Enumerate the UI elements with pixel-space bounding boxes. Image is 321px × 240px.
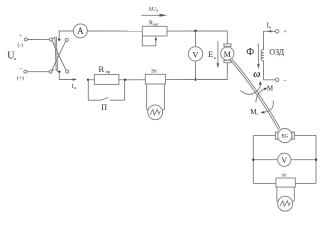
node Rp right junction <box>124 79 126 81</box>
wire crossover diagonal TL-BR <box>52 41 66 71</box>
wire <box>195 31 197 47</box>
svg-text:Ф: Ф <box>246 47 254 58</box>
svg-text:П: П <box>101 103 107 112</box>
node field minus terminal <box>276 78 279 81</box>
switch P bypass contact <box>88 80 124 112</box>
svg-text:+: + <box>19 33 22 39</box>
node right V2 junction <box>315 159 317 161</box>
arrow If <box>267 21 272 32</box>
field winding branch: wire <box>264 31 276 50</box>
label M torque with rotation arrow <box>256 84 274 102</box>
svg-text:(+): (+) <box>17 75 24 82</box>
resistor Rp <box>94 64 119 84</box>
svg-text:Sh: Sh <box>151 69 157 74</box>
resistor Rreg rheostat <box>142 21 167 36</box>
svg-text:R: R <box>149 21 153 27</box>
node top V junction <box>194 30 196 32</box>
arrow Ia with label <box>72 78 77 90</box>
wire <box>195 61 197 80</box>
svg-text:ΔU: ΔU <box>148 6 156 12</box>
svg-text:V: V <box>192 49 199 59</box>
wire <box>253 136 275 184</box>
wire <box>196 63 228 80</box>
svg-text:рег: рег <box>154 22 159 26</box>
shunt Sh2 with millivoltmeter <box>276 172 295 211</box>
node supply minus terminal <box>24 70 27 73</box>
label Ea with arrow <box>208 41 219 68</box>
svg-text:M: M <box>224 50 231 59</box>
label F flux with arrow <box>246 44 259 70</box>
svg-text:я: я <box>74 85 76 90</box>
node left V2 junction <box>252 159 254 161</box>
svg-text:в: в <box>269 25 271 30</box>
node switch bottom junction <box>58 71 60 73</box>
shunt Sh1 with millivoltmeter <box>145 69 165 119</box>
tachogenerator BG <box>275 129 294 143</box>
voltmeter V1 <box>188 47 202 61</box>
wire <box>88 79 94 81</box>
wire <box>253 159 277 161</box>
svg-text:–: – <box>283 78 288 84</box>
svg-text:Sh: Sh <box>282 172 288 177</box>
wire <box>119 79 125 81</box>
svg-text:R: R <box>99 64 105 74</box>
ammeter A1 <box>73 24 87 38</box>
node switch top junction <box>58 38 60 40</box>
shaft motor to tachogenerator <box>231 59 281 130</box>
svg-text:я: я <box>14 56 16 61</box>
svg-text:ОЗД: ОЗД <box>269 47 284 56</box>
wire <box>253 182 276 184</box>
svg-text:–: – <box>19 66 24 72</box>
label omega with rotation arrow <box>241 69 262 94</box>
arrow dU regulation <box>142 6 168 16</box>
wire <box>125 79 145 81</box>
wire <box>295 182 316 184</box>
label Mc load torque with rotation arrow <box>250 101 273 117</box>
wire <box>87 30 142 32</box>
wire <box>166 79 196 81</box>
wire <box>27 71 49 73</box>
wire <box>59 72 73 80</box>
motor M armature <box>221 44 234 63</box>
switch SA reversing contacts <box>49 38 69 73</box>
switch SA blades <box>52 37 60 72</box>
svg-text:A: A <box>77 26 84 36</box>
wire <box>294 136 316 184</box>
inductor OVD field winding <box>261 47 284 60</box>
svg-text:я: я <box>156 8 158 13</box>
svg-text:я: я <box>214 55 216 60</box>
voltmeter V2 <box>278 153 291 166</box>
svg-text:V: V <box>281 156 287 165</box>
rheostat slider arrow <box>155 36 158 40</box>
node field plus terminal <box>276 30 279 33</box>
svg-text:BG: BG <box>281 135 288 140</box>
svg-text:М: М <box>267 84 274 92</box>
wire <box>27 39 49 41</box>
wire <box>226 31 228 44</box>
label source voltage U <box>7 33 24 81</box>
node supply plus terminal <box>24 38 27 41</box>
wire rheostat slider loop <box>142 36 156 46</box>
svg-text:пр: пр <box>105 69 110 74</box>
svg-text:+: + <box>283 29 287 36</box>
svg-text:ω: ω <box>253 69 260 80</box>
svg-text:с: с <box>257 111 259 116</box>
node Rp left junction <box>87 79 89 81</box>
wire <box>291 159 316 161</box>
svg-text:(-): (-) <box>17 41 23 48</box>
wire <box>264 60 276 79</box>
wire <box>59 31 73 40</box>
wire crossover diagonal BL-TR <box>52 41 66 70</box>
wire <box>167 30 227 32</box>
node bottom V junction <box>194 78 196 80</box>
